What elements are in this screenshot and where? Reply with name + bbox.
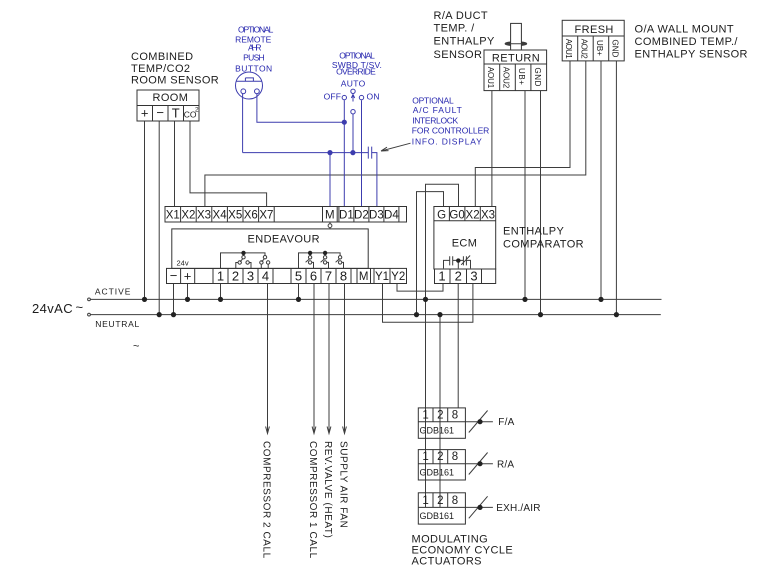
svg-text:+: + xyxy=(184,269,192,284)
node junction push button line and M xyxy=(327,150,332,155)
wire ECM G0 to ACTIVE and GDB161 F/A terminal 1 bus xyxy=(426,184,459,507)
wire OFF to D1 xyxy=(343,100,345,206)
relay contact K8 above terminal 8 xyxy=(336,259,344,269)
svg-text:X3: X3 xyxy=(197,210,211,222)
node junction contact rail K7 xyxy=(323,251,327,255)
svg-text:GDB161: GDB161 xyxy=(420,511,455,521)
svg-text:R/A DUCT: R/A DUCT xyxy=(434,10,489,22)
node junction terminal 1 on ACTIVE xyxy=(218,297,223,302)
switch SW1 pole circle xyxy=(351,110,355,114)
wire M line junction to M terminal xyxy=(329,153,331,207)
wire FRESH AOU1 to ECM X2 xyxy=(475,61,570,207)
wire ECM 2 to GDB161 F/A terminal 8 xyxy=(457,284,459,408)
svg-text:X7: X7 xyxy=(259,210,273,222)
node junction terminal 5 on ACTIVE xyxy=(296,297,301,302)
svg-text:GDB161: GDB161 xyxy=(420,467,455,477)
wire ROOM T to X1 xyxy=(174,121,176,207)
wire RETURN GND to NEUTRAL xyxy=(540,91,542,315)
svg-text:X6: X6 xyxy=(244,210,258,222)
svg-text:FOR CONTROLLER: FOR CONTROLLER xyxy=(412,125,490,135)
wire ENDEAVOUR 1 to ACTIVE xyxy=(220,284,222,300)
svg-text:~: ~ xyxy=(133,341,139,353)
node 24vAC active feed circle xyxy=(88,298,91,301)
node junction ENDEAVOUR - on NEUTRAL xyxy=(171,312,176,317)
wire FRESH GND to NEUTRAL xyxy=(615,61,617,315)
svg-text:2: 2 xyxy=(455,269,462,284)
wire FRESH UB+ to ACTIVE xyxy=(600,61,602,300)
svg-text:1: 1 xyxy=(438,269,445,284)
switch SW1 OFF circle xyxy=(342,95,346,99)
wire NEUTRAL to GDB161 terminal 2 bus xyxy=(439,315,441,507)
svg-text:G: G xyxy=(437,210,446,222)
svg-text:Y1: Y1 xyxy=(375,271,389,283)
svg-text:ENDEAVOUR: ENDEAVOUR xyxy=(248,233,320,245)
ROOM sensor box xyxy=(137,90,199,121)
svg-text:2: 2 xyxy=(437,410,443,422)
svg-text:UB+: UB+ xyxy=(517,68,526,85)
node junction contact rail K23 xyxy=(241,251,245,255)
svg-text:COMPRESSOR 2 CALL: COMPRESSOR 2 CALL xyxy=(261,441,272,559)
svg-text:7: 7 xyxy=(325,269,332,284)
switch SW1 blade arrow xyxy=(351,94,354,101)
svg-text:AHR: AHR xyxy=(248,42,262,52)
wire ENDEAVOUR Y2 to ECM 1 xyxy=(397,284,443,292)
svg-text:1: 1 xyxy=(217,269,224,284)
svg-text:ENTHALPY: ENTHALPY xyxy=(503,226,565,238)
node arrowhead compressor 1 xyxy=(312,427,316,434)
ENDEAVOUR top terminal row xyxy=(165,207,407,223)
svg-text:A/C FAULT: A/C FAULT xyxy=(413,105,462,115)
wire ON to D2 xyxy=(361,100,363,206)
node junction OFF and push button right xyxy=(342,120,347,125)
svg-text:−: − xyxy=(156,105,164,120)
node junction FRESH UB+ on ACTIVE xyxy=(598,297,603,302)
node arrowhead rev valve xyxy=(327,427,331,434)
svg-text:X5: X5 xyxy=(228,210,242,222)
svg-text:PUSH: PUSH xyxy=(243,52,265,62)
svg-text:AOU2: AOU2 xyxy=(502,67,511,89)
switch SW1 AUTO circle xyxy=(351,89,355,93)
svg-text:~: ~ xyxy=(76,300,84,315)
node junction G wire on NEUTRAL xyxy=(414,312,419,317)
wire push button right to OFF junction xyxy=(257,94,344,123)
svg-text:COMBINED: COMBINED xyxy=(131,51,193,63)
svg-text:ROOM: ROOM xyxy=(153,92,189,104)
relay contact K23 above terminals 2 and 3 xyxy=(236,253,251,269)
svg-text:BUTTON: BUTTON xyxy=(235,63,272,73)
GDB161 EXH actuator box xyxy=(418,493,465,524)
svg-text:8: 8 xyxy=(452,495,458,507)
GDB161 R/A actuator box xyxy=(418,450,465,480)
wire push button left to M line xyxy=(242,94,244,153)
svg-text:RETURN: RETURN xyxy=(492,53,540,65)
GDB161 F/A actuator box xyxy=(418,408,465,438)
wire RETURN AOU1 to ECM X3 xyxy=(491,91,493,207)
svg-text:COMPRESSOR 1 CALL: COMPRESSOR 1 CALL xyxy=(307,441,318,559)
svg-text:SUPPLY AIR FAN: SUPPLY AIR FAN xyxy=(338,441,349,528)
svg-text:R/A: R/A xyxy=(497,459,514,470)
wire common line to capacitor xyxy=(243,152,369,154)
GDB161 F/A linkage line xyxy=(465,411,493,433)
wire ENDEAVOUR - to NEUTRAL xyxy=(173,284,175,315)
node junction EXH linkage xyxy=(477,505,482,510)
svg-text:M: M xyxy=(359,271,369,283)
svg-text:ACTIVE: ACTIVE xyxy=(95,287,131,297)
wire ENDEAVOUR Y1 to ECM 3 xyxy=(383,284,473,323)
svg-text:1: 1 xyxy=(422,495,428,507)
wire FRESH AOU2 to X3 xyxy=(205,61,586,207)
svg-text:G0: G0 xyxy=(449,210,464,222)
wire ECM G to NEUTRAL xyxy=(417,192,444,315)
relay contact rail from terminal 5 xyxy=(299,253,341,269)
node junction GDB terminal 2 bus on NEUTRAL xyxy=(437,312,442,317)
svg-text:D2: D2 xyxy=(354,210,369,222)
svg-text:GND: GND xyxy=(533,68,542,87)
svg-text:FRESH: FRESH xyxy=(575,24,614,36)
svg-text:24vAC: 24vAC xyxy=(32,301,73,316)
wire ENDEAVOUR 5 to ACTIVE xyxy=(298,284,300,300)
svg-text:ECM: ECM xyxy=(452,238,478,250)
svg-text:D1: D1 xyxy=(339,210,354,222)
svg-text:GND: GND xyxy=(611,40,620,58)
svg-text:AUTO: AUTO xyxy=(341,79,366,89)
svg-text:EXH./AIR: EXH./AIR xyxy=(496,503,540,514)
GDB161 R/A linkage line xyxy=(465,453,493,475)
svg-text:2: 2 xyxy=(437,451,443,463)
node junction FRESH GND on NEUTRAL xyxy=(614,312,619,317)
svg-text:SENSOR: SENSOR xyxy=(434,49,483,61)
node junction ROOM - on NEUTRAL xyxy=(157,312,162,317)
node junction F/A linkage xyxy=(477,419,482,424)
svg-text:3: 3 xyxy=(470,269,477,284)
capacitor A/C fault interlock xyxy=(368,147,371,159)
duct probe sensor symbol xyxy=(505,42,527,46)
svg-text:8: 8 xyxy=(340,269,347,284)
GDB161 EXH linkage line xyxy=(465,496,493,518)
wire ROOM CO2 to X7 xyxy=(190,121,267,207)
svg-text:D3: D3 xyxy=(369,210,384,222)
svg-text:4: 4 xyxy=(262,269,269,284)
svg-text:GDB161: GDB161 xyxy=(420,426,455,436)
svg-text:M: M xyxy=(325,210,335,222)
ENDEAVOUR main box xyxy=(172,229,368,269)
svg-text:NEUTRAL: NEUTRAL xyxy=(95,319,139,329)
wire ACTIVE line xyxy=(91,298,662,300)
svg-text:X2: X2 xyxy=(466,210,480,222)
svg-text:COMBINED TEMP./: COMBINED TEMP./ xyxy=(635,36,739,48)
ENDEAVOUR bottom terminal row xyxy=(167,268,407,283)
node junction G0 wire on ACTIVE xyxy=(423,297,428,302)
svg-text:Y2: Y2 xyxy=(391,271,405,283)
wire ENDEAVOUR M to box xyxy=(329,222,331,229)
svg-text:2: 2 xyxy=(195,107,199,114)
svg-text:2: 2 xyxy=(437,495,443,507)
wire compressor 1 call output xyxy=(313,284,315,433)
svg-text:5: 5 xyxy=(295,269,302,284)
svg-text:3: 3 xyxy=(247,269,254,284)
node junction ECM capacitor centre tap xyxy=(456,258,460,262)
wire NEUTRAL line xyxy=(91,314,661,316)
svg-text:1: 1 xyxy=(422,410,428,422)
svg-text:OVERRIDE: OVERRIDE xyxy=(336,67,376,77)
FRESH sensor box xyxy=(562,20,624,61)
relay contact K6 above terminal 6 xyxy=(306,253,314,269)
wire ROOM + to ACTIVE xyxy=(144,121,146,299)
svg-text:UB+: UB+ xyxy=(595,40,604,56)
relay contact rail from terminal 1 xyxy=(221,253,266,269)
switch SW1 ON circle xyxy=(359,95,363,99)
svg-text:COMPARATOR: COMPARATOR xyxy=(503,239,584,251)
node 24vAC neutral feed circle xyxy=(88,313,91,316)
svg-text:8: 8 xyxy=(452,451,458,463)
interlock pointer arrow xyxy=(381,143,411,151)
svg-text:D4: D4 xyxy=(384,210,399,222)
node junction R/A linkage xyxy=(477,461,482,466)
svg-text:X4: X4 xyxy=(213,210,228,222)
svg-text:ACTUATORS: ACTUATORS xyxy=(412,556,482,568)
wire compressor 2 call output xyxy=(267,284,269,433)
svg-text:TEMP/CO2: TEMP/CO2 xyxy=(131,63,190,75)
node arrowhead supply air fan xyxy=(343,427,347,434)
relay contact K4 above terminal 4 xyxy=(261,259,268,269)
svg-text:ROOM SENSOR: ROOM SENSOR xyxy=(131,75,219,87)
wire rev valve output xyxy=(328,284,330,433)
ECM comparator box xyxy=(434,207,496,270)
node junction contact rail K6 xyxy=(308,251,312,255)
svg-text:X2: X2 xyxy=(181,210,195,222)
svg-text:OPTIONAL: OPTIONAL xyxy=(238,24,274,34)
svg-text:ENTHALPY SENSOR: ENTHALPY SENSOR xyxy=(635,49,748,61)
svg-text:F/A: F/A xyxy=(498,417,514,428)
push button terminal circles xyxy=(241,89,246,94)
svg-text:TEMP. /: TEMP. / xyxy=(434,22,476,34)
node junction ROOM + on ACTIVE xyxy=(142,297,147,302)
wire capacitor to D3 xyxy=(372,153,377,207)
ECM internal capacitor network xyxy=(444,256,471,269)
node M circle to ENDEAVOUR box xyxy=(328,224,332,228)
svg-text:ENTHALPY: ENTHALPY xyxy=(434,36,496,48)
svg-text:ON: ON xyxy=(367,92,380,102)
wire AUTO pole to common line xyxy=(352,114,354,153)
svg-text:1: 1 xyxy=(422,451,428,463)
ECM bottom terminal row xyxy=(435,269,496,284)
node arrowhead compressor 2 xyxy=(266,427,270,434)
svg-text:2: 2 xyxy=(232,269,239,284)
svg-text:X1: X1 xyxy=(166,210,180,222)
node junction RETURN UB+ on ACTIVE xyxy=(522,297,527,302)
RETURN sensor box xyxy=(484,50,547,91)
svg-text:−: − xyxy=(170,268,178,283)
push button S1 circle xyxy=(236,72,263,99)
svg-text:AOU1: AOU1 xyxy=(486,67,495,89)
svg-text:T: T xyxy=(172,106,180,121)
svg-text:INTERLOCK: INTERLOCK xyxy=(412,116,458,126)
wire ROOM - to NEUTRAL xyxy=(158,121,160,315)
wire ENDEAVOUR + to ACTIVE xyxy=(187,284,189,300)
wire supply air fan output xyxy=(344,284,346,433)
wire RETURN UB+ to ACTIVE xyxy=(524,91,526,300)
svg-text:OFF: OFF xyxy=(324,92,341,102)
svg-text:8: 8 xyxy=(452,410,458,422)
svg-text:X3: X3 xyxy=(481,210,495,222)
svg-text:24v: 24v xyxy=(177,258,189,267)
relay contact K7 above terminal 7 xyxy=(321,253,329,269)
node junction RETURN GND on NEUTRAL xyxy=(538,312,543,317)
svg-text:+: + xyxy=(141,106,149,121)
node junction auto pole and common line xyxy=(350,150,355,155)
svg-text:O/A WALL MOUNT: O/A WALL MOUNT xyxy=(635,24,735,36)
svg-text:AOU1: AOU1 xyxy=(564,39,573,59)
svg-text:REV.VALVE (HEAT): REV.VALVE (HEAT) xyxy=(322,441,333,538)
svg-text:AOU2: AOU2 xyxy=(580,39,589,59)
svg-text:INFO. DISPLAY: INFO. DISPLAY xyxy=(412,136,482,146)
svg-text:6: 6 xyxy=(310,269,317,284)
node junction ENDEAVOUR + on ACTIVE xyxy=(185,297,190,302)
